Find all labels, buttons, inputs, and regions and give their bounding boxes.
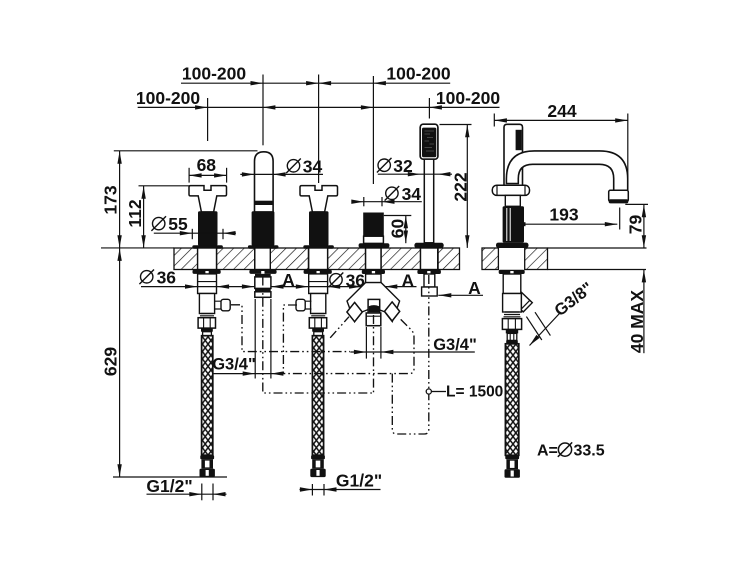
- label Ø34 spout: [286, 159, 301, 174]
- dimension 222 vertical: [466, 125, 468, 248]
- svg-text:A: A: [401, 271, 414, 291]
- svg-text:L= 1500: L= 1500: [446, 384, 503, 401]
- svg-text:244: 244: [547, 101, 576, 121]
- annotation line Ø36 / A (below deck): [141, 286, 417, 288]
- right view: valve body below deck with G3/8 outlet: [499, 270, 533, 344]
- extension tick diverter centre: [372, 76, 374, 184]
- dimension 173 vertical: [119, 151, 121, 248]
- dimension 79 vertical: [643, 205, 645, 248]
- dimension 40 MAX vertical: [643, 270, 645, 353]
- handshower holder + handshower (front view): [414, 124, 443, 296]
- annotation line A handshower: [438, 294, 483, 296]
- handle 2 (cold valve, cross handle front view): [296, 186, 338, 336]
- svg-text:34: 34: [303, 156, 323, 176]
- hose 1 (braided flex hose of valve 1): [200, 336, 215, 477]
- annotation G3/4 spout tailpiece: [213, 373, 284, 375]
- svg-text:G3/8": G3/8": [551, 279, 596, 320]
- svg-text:40 MAX: 40 MAX: [627, 290, 647, 354]
- deck section (main, hatched): [174, 248, 460, 270]
- extension tick handle1 centre: [207, 98, 209, 141]
- label Ø32 handshower: [377, 158, 392, 173]
- right view: spout (side, inverted-U tube): [506, 151, 627, 197]
- dimension line Ø32 handshower: [378, 173, 452, 175]
- dimension line Ø34 diverter: [352, 201, 422, 203]
- svg-text:33.5: 33.5: [574, 443, 605, 460]
- svg-text:G1/2": G1/2": [336, 471, 382, 491]
- floor reference line: [113, 476, 227, 478]
- svg-text:60: 60: [388, 219, 408, 239]
- handle 1 (hot valve, cross handle front view): [189, 186, 230, 336]
- extension tick handshower centre: [428, 98, 430, 119]
- hose 3 (braided flex hose, right view): [505, 344, 520, 478]
- svg-text:32: 32: [393, 156, 413, 176]
- dimension line Ø34 spout: [240, 173, 323, 175]
- svg-text:A: A: [282, 270, 295, 290]
- svg-text:68: 68: [197, 155, 217, 175]
- dimension line Ø55: [154, 232, 236, 234]
- dimension 193 line: [524, 223, 618, 225]
- svg-text:100-200: 100-200: [436, 88, 500, 108]
- svg-text:36: 36: [157, 267, 177, 287]
- annotation G1/2 hose 2: [300, 489, 381, 491]
- svg-text:A: A: [468, 278, 481, 298]
- spout column (front view): [248, 152, 279, 297]
- right view: spout aerator tip: [609, 190, 629, 203]
- svg-text:173: 173: [100, 185, 120, 214]
- annotation G3/4 diverter outlet: [350, 351, 475, 353]
- deck outline extension to right dims: [548, 248, 647, 270]
- hose 2 (braided flex hose of valve 2): [310, 336, 325, 477]
- dimension row 2 line (100-200 pair lower): [138, 106, 500, 108]
- deck top extension line to left dims: [101, 247, 174, 249]
- right view: handshower in holder (side): [504, 124, 523, 187]
- dimension 629 vertical: [119, 248, 121, 476]
- label Ø36 diverter: [329, 273, 344, 288]
- svg-text:34: 34: [402, 184, 422, 204]
- svg-text:100-200: 100-200: [136, 88, 200, 108]
- chain line: diverter centre line: [373, 315, 375, 393]
- svg-text:193: 193: [549, 205, 578, 225]
- dimension 68 line: [189, 174, 227, 176]
- dimension row 1 line (100-200 pair upper): [181, 82, 450, 84]
- chain line: diverter right outlet to handshower hose: [284, 319, 414, 373]
- svg-text:112: 112: [125, 199, 145, 227]
- svg-text:36: 36: [346, 270, 366, 290]
- chain line: spout centre feed route: [263, 277, 374, 394]
- extension tick spout centre: [262, 75, 264, 146]
- dimension origin dot for 193: [522, 222, 526, 226]
- chain line: valve2 outlet route: [283, 305, 297, 374]
- chain line: diagonal diverter left outlet to valve2 hose: [330, 317, 349, 338]
- svg-text:79: 79: [625, 215, 645, 235]
- leader dot and line for L=1500: [426, 389, 431, 394]
- leader G3/8: [530, 312, 561, 345]
- svg-text:G3/4": G3/4": [433, 336, 477, 354]
- svg-text:222: 222: [450, 172, 470, 201]
- dimension 60 vertical: [405, 216, 407, 244]
- svg-text:55: 55: [168, 214, 188, 234]
- chain line: handshower centre line through shank: [428, 275, 430, 296]
- label Ø36 valve1: [139, 270, 154, 285]
- arrowheads: [117, 81, 646, 496]
- svg-text:A=: A=: [537, 443, 558, 460]
- svg-text:100-200: 100-200: [386, 64, 450, 84]
- dimension 244 line: [494, 119, 627, 121]
- diverter (front view): [347, 213, 400, 326]
- annotation G1/2 hose 1: [147, 493, 227, 495]
- chain line: valve1 outlet route to diverter: [231, 305, 350, 352]
- svg-text:100-200: 100-200: [182, 64, 246, 84]
- right view: cross handle (side): [492, 185, 529, 248]
- label Ø55: [151, 216, 166, 231]
- svg-text:G1/2": G1/2": [146, 476, 192, 496]
- dimension 112 vertical: [143, 186, 145, 248]
- svg-text:G3/4": G3/4": [212, 356, 256, 374]
- label Ø34 diverter: [385, 186, 400, 201]
- extension tick handle2 centre: [318, 75, 320, 184]
- svg-text:629: 629: [100, 347, 120, 376]
- deck section (right view, hatched): [482, 248, 548, 270]
- chain line: handshower hose loop (L=1500): [392, 296, 429, 434]
